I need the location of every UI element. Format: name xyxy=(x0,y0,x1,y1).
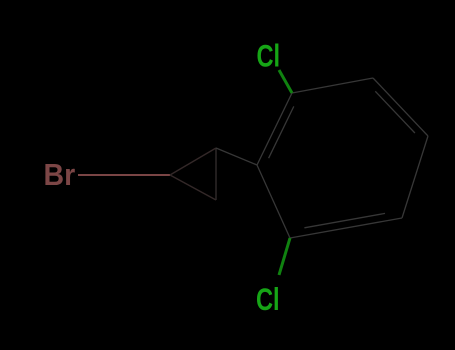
benzene bond C6-C1 xyxy=(257,165,290,238)
svg-text:Br: Br xyxy=(44,158,76,192)
cyclopropane edge C7-C9 xyxy=(170,175,216,200)
benzene double bond C3=C4 inner line xyxy=(375,91,415,133)
svg-text:Cl: Cl xyxy=(257,38,281,73)
benzene bond C5-C6 xyxy=(290,218,402,238)
bond C6-Cl (green, bottom) xyxy=(279,238,290,275)
benzene bond C4-C5 xyxy=(402,136,428,218)
bond C8-C1 (cyclopropane to ring) xyxy=(216,148,257,165)
benzene double bond C1=C2 inner line xyxy=(269,106,294,158)
benzene bond C1-C2 xyxy=(257,93,292,165)
cyclopropane edge C7-C8 xyxy=(170,148,216,175)
benzene double bond C5=C6 inner line xyxy=(304,213,385,227)
svg-text:Cl: Cl xyxy=(256,282,280,317)
bond Br-C7 (maroon bond from Br label to cyclopropane) xyxy=(78,174,170,176)
cyclopropane edge C8-C9 xyxy=(215,148,217,200)
benzene bond C3-C4 xyxy=(373,78,428,136)
benzene bond C2-C3 xyxy=(292,78,373,93)
bond C2-Cl (green, top) xyxy=(279,70,292,93)
